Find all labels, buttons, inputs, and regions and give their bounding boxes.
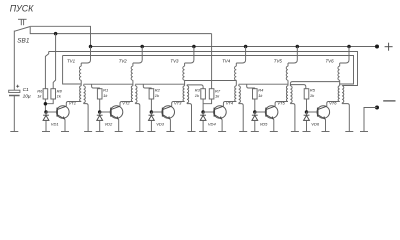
terminal stub emitter 2 [115,131,123,133]
terminal stub lamp 1 [84,131,92,133]
wire + supply rail [91,46,378,48]
transformer TV2 lamp winding [135,85,137,104]
svg-text:TV3: TV3 [170,59,179,64]
wire TV2 to TV3 chain [135,83,184,85]
transformer TV3 label [170,59,179,64]
resistor R3 [201,89,206,99]
svg-text:VD4: VD4 [208,121,217,126]
label VD3 [156,121,165,126]
svg-text:C1: C1 [23,87,29,93]
transformer TV3 base winding [183,63,185,86]
label R8 [57,88,63,93]
terminal stub emitter 5 [270,131,278,133]
diode VD2 [97,112,103,132]
wire TV3 lamp winding output [187,104,192,132]
wire + feed to TV1 [81,47,90,64]
resistor R4 [253,89,258,99]
wire R4 to base junction [254,99,256,112]
terminal stub diode 4 [199,131,207,133]
diode VD6 [304,112,310,132]
label VD2 [105,121,114,126]
push-button SB1 [15,19,31,31]
transformer TV2 label [119,59,128,64]
node start-rail branch junction [54,32,58,36]
label SB1 [17,38,30,45]
svg-text:VD2: VD2 [105,121,114,126]
terminal stub lamp 5 [291,131,299,133]
wire VT4 emitter to terminal [221,119,223,131]
svg-text:TV4: TV4 [222,59,231,64]
resistor R2 [149,89,154,99]
diode VD1 [43,112,49,132]
label VT2 [122,100,130,105]
wire + feed to TV3 [185,47,194,64]
transformer TV6 primary winding [338,86,340,102]
label R1 value [103,93,108,98]
wire base junction to VT5 [255,111,266,113]
wire R2 to base junction [150,99,152,112]
wire TV5 primary to VT5 collector [275,102,288,107]
label R7 value [215,94,220,99]
terminal stub diode 6 [303,131,311,133]
wire TV3 primary to VT3 collector [172,102,185,107]
diode VD3 [149,112,155,132]
transformer TV6 label [326,59,335,64]
node + rail feed stage 1 [89,45,93,49]
wire start branch to R8 [53,34,55,89]
svg-text:VD1: VD1 [51,121,59,126]
wire C1 to bottom terminal [13,96,15,132]
label VD4 [208,121,217,126]
label R6 value [37,94,42,99]
wire + feed to TV5 [288,47,297,64]
wire VT6 emitter to terminal [325,119,327,131]
node + rail feed stage 3 [192,45,196,49]
wire R1 branch from chain [92,84,100,89]
label VD5 [260,121,269,126]
wire loop L2 left drop to TV1 [63,56,82,85]
wire TV4 primary to VT4 collector [223,102,236,107]
transistor VT3 [162,106,175,120]
node base junction stage 5 [253,110,256,114]
label R3 value [195,93,200,98]
svg-text:SB1: SB1 [17,38,30,45]
terminal stub lamp 3 [188,131,196,133]
wire + feed to TV2 [133,47,142,64]
terminal stub diode 5 [251,131,259,133]
label C1 value 10u [23,94,31,100]
transformer TV6 base winding [338,63,340,86]
transistor VT6 [317,106,330,120]
transformer TV2 primary winding [131,86,133,102]
transformer TV1 primary winding [80,86,82,102]
label + terminal [385,43,393,51]
node base junction stage 3 [150,110,154,114]
diode VD5 [252,112,258,132]
transformer TV5 primary winding [286,86,288,102]
wire VT5 emitter to terminal [273,119,275,131]
resistor R1 [97,89,102,99]
transformer TV4 base winding [235,63,237,86]
wire TV3 to R3 branch [187,85,203,89]
terminal stub diode 1 [42,131,50,133]
transformer TV4 primary winding [235,86,237,102]
label R3 [195,88,201,93]
terminal stub emitter 3 [166,131,174,133]
svg-text:VD6: VD6 [311,121,320,126]
wire TV1 primary to VT1 collector [66,102,81,107]
terminal stub emitter 6 [322,131,330,133]
wire TV4 lamp winding output [239,104,244,132]
node + rail feed stage 4 [244,45,248,49]
node base junction stage 1 [44,110,48,114]
label VT1 [69,100,76,105]
terminal stub lamp 6 [345,131,353,133]
wire R3 to base junction [202,99,204,112]
transistor VT2 [110,106,123,120]
svg-text:VD3: VD3 [156,121,165,126]
wire TV1 to TV2 chain [84,83,133,85]
wire TV1 lamp winding output [84,104,89,132]
label R7 [215,88,221,93]
transformer TV3 lamp winding [187,85,189,104]
wire TV6 lamp winding output [342,104,349,132]
wire R6 bottom to base junction [44,99,46,112]
wire R2 branch from chain [143,84,151,89]
terminal stub lamp 2 [136,131,144,133]
wire loop L1 (TV6 winding to R6) [49,52,358,86]
wire VT2 emitter to terminal [118,119,120,131]
wire base junction to VT6 [307,111,318,113]
capacitor C1 negative plate [9,95,20,97]
capacitor C1 plus sign [16,85,19,88]
wire VT3 emitter to terminal [169,119,171,131]
transistor VT1 [57,106,70,120]
wire R4 branch from chain [247,84,255,89]
node - terminal [375,106,379,110]
terminal stub left [10,131,18,133]
wire loop L1 left drop to R6 [45,52,48,89]
label VT4 [226,100,234,105]
transformer TV4 lamp winding [239,85,241,104]
node + rail feed stage 5 [296,45,300,49]
resistor R8 [51,89,56,99]
wire TV5 lamp winding output [290,104,295,132]
wire TV2 primary to VT2 collector [120,102,133,107]
label R6 [37,88,43,93]
terminal stub diode 3 [147,131,155,133]
svg-text:TV5: TV5 [274,59,283,64]
label R5 [310,88,316,93]
label - terminal [383,100,395,102]
transistor VT4 [214,106,227,120]
terminal stub emitter 4 [218,131,226,133]
diode VD4 [200,112,206,132]
transformer TV1 lamp winding [84,85,86,104]
svg-text:ПУСК: ПУСК [10,4,34,14]
wire loop L2 (TV6 to TV1 base winding) [63,56,354,85]
label R1 [103,88,108,93]
wire R5 to base junction [306,99,308,112]
label VD1 [51,121,59,126]
transformer TV5 label [274,59,283,64]
wire base junction to VT1 [46,111,57,113]
wire TV4 to TV5 chain [239,83,288,85]
resistor R7 [209,89,214,99]
wire SB1 left post through C1 [13,31,15,91]
capacitor C1 positive plate [9,90,20,92]
wire - terminal to bottom stub [364,108,377,132]
terminal stub emitter 1 [61,131,69,133]
terminal stub lamp 4 [239,131,247,133]
transformer TV2 base winding [131,63,133,86]
wire R1 to base junction [99,99,101,112]
label VT3 [174,100,182,105]
label ПУСК (start) [10,4,34,14]
node base junction stage 2 [98,110,102,114]
svg-text:10µ: 10µ [23,94,31,100]
transformer TV1 base winding [79,63,81,86]
label R5 value [310,93,315,98]
wire + feed to TV6 [340,47,349,64]
terminal stub minus [360,131,368,133]
svg-text:TV6: TV6 [326,59,335,64]
transformer TV5 base winding [286,63,288,86]
wire TV5 to R5 branch [290,85,305,89]
node base junction stage 4 [201,110,205,114]
label VT6 [329,100,337,105]
wire VT1 emitter to terminal [64,119,66,131]
wire TV6 primary to VT6 collector [327,102,340,107]
wire start rail drop to R7 [211,34,213,89]
label R2 [155,88,161,93]
resistor R5 [304,89,309,99]
wire SB1 start rail to R7 [30,27,211,34]
wire TV3 to TV4 chain [185,80,237,82]
transistor VT5 [265,106,278,120]
svg-text:TV2: TV2 [119,59,128,64]
label R2 value [155,93,160,98]
node base junction stage 6 [305,110,309,114]
wire base junction to VT3 [151,111,162,113]
transformer TV5 lamp winding [290,85,292,104]
label R4 [258,88,264,93]
label VD6 [311,121,320,126]
label VT5 [277,100,285,105]
transformer TV1 label [67,59,76,64]
terminal stub diode 2 [96,131,104,133]
wire R8 bottom to junction [45,99,53,104]
wire R7 bottom to junction [203,99,212,104]
node + rail feed stage 2 [140,45,144,49]
wire SB1 top contact to + rail [30,26,90,46]
wire base junction to VT4 [203,111,214,113]
node + rail end terminal [375,45,379,49]
wire base junction to VT2 [100,111,111,113]
wire TV5 to TV6 chain [290,82,339,86]
wire + feed to TV4 [236,47,245,64]
transformer TV6 lamp winding [342,86,344,104]
node R6-R8 junction [44,102,48,106]
transformer TV4 label [222,59,231,64]
label R8 value [57,94,62,99]
svg-text:VD5: VD5 [260,121,269,126]
node + rail feed stage 6 [347,45,351,49]
transformer TV3 primary winding [183,86,185,102]
resistor R6 [43,89,48,99]
label R4 value [258,93,263,98]
svg-text:TV1: TV1 [67,59,76,64]
label C1 [23,87,29,93]
wire TV2 lamp winding output [135,104,140,132]
